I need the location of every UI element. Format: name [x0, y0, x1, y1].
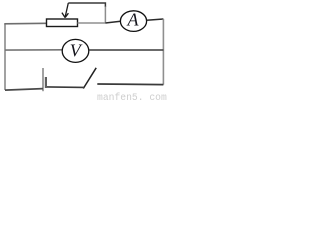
- rheostat slider arrow: [62, 3, 69, 18]
- watermark manfen5.com: [97, 92, 171, 103]
- wire right vertical: [162, 19, 164, 85]
- wire ammeter to right corner: [147, 19, 164, 20]
- wire voltmeter branch from left: [5, 49, 62, 51]
- wire top-left horizontal to rheostat: [4, 22, 46, 25]
- wire rheostat right to junction: [78, 22, 106, 24]
- voltmeter U2 circle: [62, 39, 89, 62]
- ammeter U1 circle: [120, 11, 146, 32]
- resistor R (rheostat body): [47, 19, 78, 27]
- wire voltmeter to right vertical: [89, 49, 164, 51]
- svg-text:A: A: [127, 10, 140, 30]
- battery long plate: [42, 68, 44, 91]
- switch S lever: [83, 68, 96, 89]
- wire junction to ammeter: [105, 21, 120, 23]
- wire slider loop vertical drop: [104, 7, 106, 23]
- battery short plate: [45, 77, 47, 88]
- wire bottom-left horizontal: [5, 89, 43, 91]
- wire battery to switch: [47, 86, 84, 89]
- wire bottom right from switch: [97, 83, 163, 86]
- wire slider top loop horizontal: [68, 3, 105, 7]
- wire left vertical: [4, 24, 6, 90]
